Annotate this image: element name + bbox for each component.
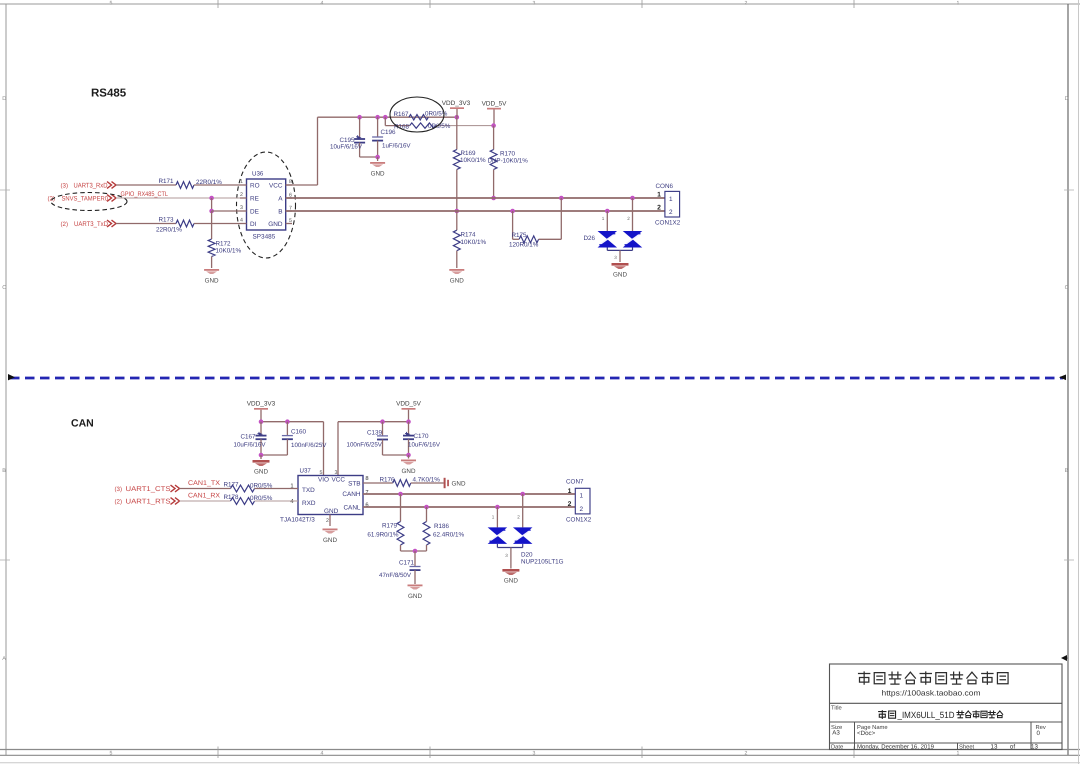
svg-text:GND: GND <box>452 480 466 487</box>
svg-text:B: B <box>1065 468 1069 474</box>
svg-text:R167: R167 <box>394 111 410 118</box>
svg-text:1uF/6/16V: 1uF/6/16V <box>382 143 411 150</box>
svg-text:Sheet: Sheet <box>959 743 975 750</box>
svg-text:D26: D26 <box>584 235 596 242</box>
svg-text:DI: DI <box>250 221 257 228</box>
svg-text:GND: GND <box>408 593 422 600</box>
svg-text:2: 2 <box>745 0 748 6</box>
svg-text:10uF/6/16V: 10uF/6/16V <box>234 442 267 449</box>
svg-text:GND: GND <box>450 278 464 285</box>
svg-text:R179: R179 <box>382 523 398 530</box>
svg-text:120R0/1%: 120R0/1% <box>509 242 539 249</box>
svg-text:UART1_RTS: UART1_RTS <box>126 498 171 505</box>
svg-text:VDD_3V3: VDD_3V3 <box>442 100 471 107</box>
svg-text:U37: U37 <box>300 468 312 475</box>
svg-text:10K0/1%: 10K0/1% <box>216 248 242 255</box>
svg-text:22R0/1%: 22R0/1% <box>156 227 182 234</box>
svg-text:R186: R186 <box>434 523 450 530</box>
svg-text:62.4R0/1%: 62.4R0/1% <box>433 532 465 539</box>
svg-text:R172: R172 <box>216 241 232 248</box>
svg-text:47nF/8/50V: 47nF/8/50V <box>379 572 412 579</box>
svg-text:(3): (3) <box>115 486 123 493</box>
svg-text:https://100ask.taobao.com: https://100ask.taobao.com <box>882 689 981 698</box>
svg-text:0R0/5%: 0R0/5% <box>250 495 273 502</box>
svg-text:5: 5 <box>289 218 292 224</box>
svg-text:3: 3 <box>533 751 536 757</box>
svg-text:1: 1 <box>492 515 495 520</box>
svg-text:D20: D20 <box>521 552 533 559</box>
svg-text:SP3485: SP3485 <box>253 234 276 241</box>
svg-text:100nF/6/25V: 100nF/6/25V <box>347 442 383 449</box>
svg-text:GND: GND <box>504 578 518 585</box>
svg-text:C170: C170 <box>414 433 430 440</box>
svg-text:C: C <box>2 285 6 291</box>
svg-text:STB: STB <box>348 481 360 488</box>
svg-text:5: 5 <box>110 0 113 6</box>
svg-text:4: 4 <box>321 0 324 6</box>
svg-text:1: 1 <box>669 196 673 203</box>
svg-text:RO: RO <box>250 182 260 189</box>
svg-text:CON1X2: CON1X2 <box>655 220 681 227</box>
svg-text:CAN1_TX: CAN1_TX <box>188 480 220 487</box>
svg-text:SNVS_TAMPER0: SNVS_TAMPER0 <box>62 195 109 202</box>
svg-text:VDD_5V: VDD_5V <box>396 401 422 408</box>
svg-text:B: B <box>278 209 282 216</box>
svg-text:VIO: VIO <box>318 476 329 483</box>
svg-text:10K0/1%: 10K0/1% <box>461 239 487 246</box>
svg-text:3: 3 <box>335 470 338 476</box>
svg-text:8: 8 <box>365 475 368 482</box>
svg-text:A3: A3 <box>832 730 840 737</box>
svg-text:0: 0 <box>1037 730 1041 737</box>
svg-text:2: 2 <box>745 751 748 757</box>
svg-text:R176: R176 <box>380 476 396 483</box>
svg-text:C: C <box>1065 285 1069 291</box>
svg-text:R169: R169 <box>461 150 477 157</box>
svg-text:UART3_RxD: UART3_RxD <box>74 182 108 189</box>
svg-text:100nF/6/25V: 100nF/6/25V <box>291 442 327 449</box>
svg-text:CANL: CANL <box>343 505 360 512</box>
svg-text:D: D <box>1065 96 1069 102</box>
svg-text:4: 4 <box>321 751 324 757</box>
svg-text:CANH: CANH <box>342 491 360 498</box>
svg-text:R170: R170 <box>500 151 516 158</box>
svg-text:DNP-10K0/1%: DNP-10K0/1% <box>488 158 529 165</box>
svg-text:GND: GND <box>268 221 283 228</box>
svg-text:22R0/1%: 22R0/1% <box>196 179 222 186</box>
svg-text:1: 1 <box>657 192 661 199</box>
svg-text:2: 2 <box>240 192 243 198</box>
svg-text:DE: DE <box>250 209 259 216</box>
svg-text:CAN: CAN <box>71 418 94 430</box>
svg-text:(2): (2) <box>48 195 56 202</box>
svg-text:NUP2105LT1G: NUP2105LT1G <box>521 559 564 566</box>
svg-text:(3): (3) <box>61 182 69 189</box>
svg-text:3: 3 <box>240 205 243 211</box>
svg-text:RXD: RXD <box>302 500 316 507</box>
svg-text:7: 7 <box>365 490 368 496</box>
svg-text:R171: R171 <box>159 178 175 185</box>
svg-text:U36: U36 <box>252 171 264 178</box>
svg-text:1: 1 <box>957 0 960 6</box>
svg-text:VCC: VCC <box>332 476 346 483</box>
svg-text:VDD_5V: VDD_5V <box>482 100 508 107</box>
svg-text:(2): (2) <box>115 498 123 505</box>
svg-text:13: 13 <box>991 743 998 750</box>
svg-text:2: 2 <box>568 501 572 508</box>
svg-text:8: 8 <box>289 179 292 185</box>
svg-text:R178: R178 <box>224 494 240 501</box>
svg-text:CON1X2: CON1X2 <box>566 517 592 524</box>
svg-text:B: B <box>2 468 6 474</box>
svg-text:CON6: CON6 <box>656 183 674 190</box>
svg-text:2: 2 <box>657 205 661 212</box>
svg-text:GND: GND <box>205 278 219 285</box>
svg-text:2: 2 <box>326 518 329 524</box>
svg-text:R177: R177 <box>224 482 240 489</box>
svg-text:GND: GND <box>371 171 385 178</box>
svg-text:A: A <box>278 196 283 203</box>
svg-text:10K0/1%: 10K0/1% <box>460 157 486 164</box>
svg-text:1: 1 <box>602 216 605 221</box>
svg-text:1: 1 <box>568 488 572 495</box>
svg-text:3: 3 <box>533 0 536 6</box>
svg-text:TJA1042T/3: TJA1042T/3 <box>280 517 315 524</box>
svg-text:1: 1 <box>580 493 584 500</box>
svg-text:UART3_TxD: UART3_TxD <box>74 221 108 228</box>
svg-text:VDD_3V3: VDD_3V3 <box>247 401 276 408</box>
svg-text:5: 5 <box>110 751 113 757</box>
svg-text:Date: Date <box>831 744 843 750</box>
svg-text:RE: RE <box>250 196 259 203</box>
svg-text:GND: GND <box>402 468 416 475</box>
svg-text:C167: C167 <box>241 434 257 441</box>
svg-text:13: 13 <box>1031 743 1038 750</box>
svg-text:Title: Title <box>831 705 842 712</box>
svg-text:R174: R174 <box>461 232 477 239</box>
svg-text:CON7: CON7 <box>566 479 584 486</box>
svg-text:2: 2 <box>580 506 584 513</box>
svg-text:TXD: TXD <box>302 487 315 494</box>
svg-text:C139: C139 <box>367 430 383 437</box>
svg-text:2: 2 <box>627 216 630 221</box>
svg-text:A: A <box>2 656 6 662</box>
svg-text:UART1_CTS: UART1_CTS <box>126 486 171 493</box>
svg-text:5: 5 <box>320 470 323 476</box>
svg-text:Monday, December 16, 2019: Monday, December 16, 2019 <box>857 743 935 750</box>
svg-text:4: 4 <box>240 218 243 224</box>
svg-text:GND: GND <box>613 272 627 279</box>
svg-text:0R0/5%: 0R0/5% <box>250 483 273 490</box>
svg-text:3: 3 <box>614 255 617 260</box>
svg-text:of: of <box>1010 743 1015 750</box>
svg-text:C160: C160 <box>291 429 307 436</box>
svg-text:1: 1 <box>957 751 960 757</box>
svg-text:10uF/6/16V: 10uF/6/16V <box>330 144 363 151</box>
svg-text:D: D <box>2 96 6 102</box>
svg-text:R175: R175 <box>512 232 528 239</box>
svg-text:RS485: RS485 <box>91 88 127 100</box>
svg-text:R173: R173 <box>159 217 175 224</box>
svg-text:_IMX6ULL_51D: _IMX6ULL_51D <box>897 710 955 720</box>
svg-text:R168: R168 <box>394 124 410 131</box>
svg-text:GND: GND <box>254 469 268 476</box>
svg-text:CAN1_RX: CAN1_RX <box>188 493 220 500</box>
svg-text:(2): (2) <box>61 221 69 228</box>
svg-text:VCC: VCC <box>269 182 283 189</box>
svg-text:C171: C171 <box>399 560 415 567</box>
svg-text:2: 2 <box>517 515 520 520</box>
svg-text:10uF/6/16V: 10uF/6/16V <box>408 442 441 449</box>
svg-text:3: 3 <box>505 553 508 558</box>
svg-text:2: 2 <box>669 209 673 216</box>
svg-text:<Doc>: <Doc> <box>857 730 876 737</box>
svg-text:61.9R0/1%: 61.9R0/1% <box>367 532 399 539</box>
svg-text:GND: GND <box>324 508 339 515</box>
svg-text:4.7K0/1%: 4.7K0/1% <box>413 476 441 483</box>
svg-text:GND: GND <box>323 537 337 544</box>
svg-text:GPIO_RX485_CTL: GPIO_RX485_CTL <box>121 191 169 198</box>
